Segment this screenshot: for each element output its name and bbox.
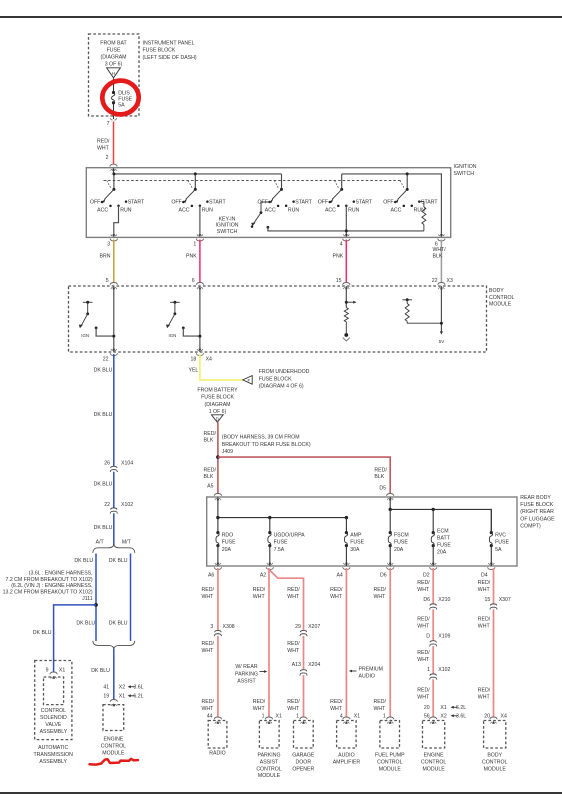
svg-text:H: H xyxy=(112,71,115,76)
svg-text:PREMIUM: PREMIUM xyxy=(359,666,384,672)
svg-text:4: 4 xyxy=(340,241,343,247)
svg-text:WHT: WHT xyxy=(478,587,491,593)
svg-text:W/ REAR: W/ REAR xyxy=(235,664,257,670)
connector fuel pump control module top pin xyxy=(387,717,394,719)
svg-text:SOLENOID: SOLENOID xyxy=(40,715,67,721)
svg-text:FUSE: FUSE xyxy=(222,540,236,546)
svg-text:3: 3 xyxy=(107,241,110,247)
svg-text:RED/: RED/ xyxy=(417,688,430,694)
svg-text:D6: D6 xyxy=(423,597,430,603)
svg-text:START: START xyxy=(209,199,226,205)
fuel pump control module box (dashed) xyxy=(380,721,400,749)
svg-text:3 OF 6): 3 OF 6) xyxy=(105,62,123,68)
svg-text:WHT: WHT xyxy=(97,146,110,152)
svg-text:X102: X102 xyxy=(121,502,133,508)
svg-text:ASSEMBLY: ASSEMBLY xyxy=(40,729,68,735)
svg-text:5: 5 xyxy=(106,278,109,284)
svg-text:D2: D2 xyxy=(423,572,430,578)
connector pin A2 xyxy=(266,567,273,569)
ignition switch section 5 xyxy=(406,174,408,190)
svg-text:IGNITION: IGNITION xyxy=(215,223,238,229)
svg-text:MODULE: MODULE xyxy=(489,301,512,307)
junction J111 xyxy=(94,603,98,607)
ignition switch section 3 key-in xyxy=(281,174,283,190)
svg-text:44: 44 xyxy=(207,713,213,719)
svg-text:X1: X1 xyxy=(59,668,65,674)
svg-text:RED/: RED/ xyxy=(374,587,387,593)
svg-text:FUSE: FUSE xyxy=(107,48,121,54)
svg-text:(LEFT SIDE OF DASH): (LEFT SIDE OF DASH) xyxy=(143,55,197,61)
svg-text:2: 2 xyxy=(106,155,109,161)
svg-text:OFF: OFF xyxy=(383,199,393,205)
connector pin A4 xyxy=(343,567,350,569)
svg-text:X1: X1 xyxy=(354,713,360,719)
connector pin 6 xyxy=(438,239,445,241)
svg-text:DK BLU: DK BLU xyxy=(76,620,95,626)
svg-text:RED/: RED/ xyxy=(374,467,387,473)
wire RED/WHT fuse block to ignition switch xyxy=(113,122,115,167)
svg-text:OPENER: OPENER xyxy=(292,766,314,772)
connector pin A5 xyxy=(214,494,221,496)
ignition switch section 1 (pivot, OFF/ACC/RUN/START) xyxy=(113,174,115,190)
svg-text:WHT: WHT xyxy=(374,706,387,712)
svg-text:X109: X109 xyxy=(438,634,450,640)
connector pin 2 ignition switch xyxy=(110,164,117,166)
switch 1 output wire RUN to pin 3 xyxy=(114,206,119,237)
svg-text:WHT: WHT xyxy=(478,695,491,701)
svg-text:WHT: WHT xyxy=(417,587,430,593)
wire RED/BLK from triangle D xyxy=(217,422,219,495)
svg-text:BLK: BLK xyxy=(374,474,384,480)
ignition internal bus segment B xyxy=(342,174,442,237)
arrow to parking assist wire xyxy=(264,670,267,673)
svg-text:DK BLU: DK BLU xyxy=(94,525,113,531)
svg-text:1: 1 xyxy=(193,241,196,247)
connector pin D5 xyxy=(387,494,394,496)
svg-text:RED/: RED/ xyxy=(202,641,215,647)
svg-text:AMP: AMP xyxy=(350,532,362,538)
svg-text:IGN: IGN xyxy=(168,333,176,338)
connector parking assist control module top pin xyxy=(265,717,272,719)
svg-text:7: 7 xyxy=(107,121,110,127)
svg-text:DOOR: DOOR xyxy=(296,759,312,765)
svg-text:START: START xyxy=(356,199,373,205)
control solenoid valve assembly box (dashed) xyxy=(44,677,64,705)
svg-text:X104: X104 xyxy=(121,460,133,466)
svg-text:CONTROL: CONTROL xyxy=(377,759,402,765)
wire DK BLU BCM to split xyxy=(113,354,115,546)
svg-text:20: 20 xyxy=(424,705,430,711)
svg-text:BODY: BODY xyxy=(489,288,504,294)
svg-text:(BODY HARNESS, 39 CM FROM: (BODY HARNESS, 39 CM FROM xyxy=(222,435,300,441)
connector engine control module U1 top pin xyxy=(430,717,437,719)
ignition internal bus segment A xyxy=(114,173,282,175)
svg-text:RED/: RED/ xyxy=(330,587,343,593)
svg-text:BLK: BLK xyxy=(204,437,214,443)
connector BCM pin 5 xyxy=(110,283,117,285)
svg-text:D5: D5 xyxy=(379,485,386,491)
wire PNK pin1 to BCM xyxy=(199,240,201,286)
wire RED/BLK branch to D5 xyxy=(218,457,390,495)
connector BCM bottom pin 18 X4 xyxy=(196,353,203,355)
svg-text:5V: 5V xyxy=(439,339,446,344)
svg-text:WHT: WHT xyxy=(478,624,491,630)
svg-text:PARKING: PARKING xyxy=(258,753,281,759)
wire RED/WHT parking assist xyxy=(268,568,270,719)
svg-text:X102: X102 xyxy=(438,667,450,673)
svg-text:RED/: RED/ xyxy=(253,699,266,705)
connector pin D6 xyxy=(387,567,394,569)
svg-text:ACC: ACC xyxy=(265,207,276,213)
svg-text:RED/: RED/ xyxy=(374,699,387,705)
svg-text:RED/: RED/ xyxy=(417,580,430,586)
svg-text:ECM: ECM xyxy=(437,528,449,534)
connector ECM pin xyxy=(110,700,117,702)
BCM pin15 junction + arrow xyxy=(345,301,348,304)
svg-text:DK BLU: DK BLU xyxy=(94,368,113,374)
svg-text:18: 18 xyxy=(191,357,197,363)
wire RED/WHT body control xyxy=(493,568,495,719)
svg-text:WHT: WHT xyxy=(202,594,215,600)
svg-text:(RIGHT REAR: (RIGHT REAR xyxy=(520,509,554,515)
fuse block left bus xyxy=(217,497,219,518)
svg-text:F: F xyxy=(248,378,251,383)
fuse ECM BATT xyxy=(432,531,435,534)
svg-text:4: 4 xyxy=(340,713,343,719)
key-in output wire xyxy=(268,227,424,231)
key-in switch branch from OFF xyxy=(261,202,270,213)
svg-text:DK BLU: DK BLU xyxy=(94,412,113,418)
connector garage door opener top pin xyxy=(300,717,307,719)
svg-text:ASSIST: ASSIST xyxy=(260,759,279,765)
svg-text:UGDO/URPA: UGDO/URPA xyxy=(274,532,306,538)
inline connector X102 xyxy=(431,674,436,680)
svg-text:29: 29 xyxy=(295,624,301,630)
svg-text:DK BLU: DK BLU xyxy=(94,482,113,488)
svg-text:X210: X210 xyxy=(438,597,450,603)
svg-text:CONTROL: CONTROL xyxy=(482,759,507,765)
wire pin 2 to internal bus xyxy=(113,168,115,174)
svg-text:22: 22 xyxy=(104,502,110,508)
svg-text:TRANSMISSION: TRANSMISSION xyxy=(33,752,73,758)
svg-text:FUSE BLOCK: FUSE BLOCK xyxy=(201,395,234,401)
svg-text:(DIAGRAM: (DIAGRAM xyxy=(205,402,231,408)
svg-text:15: 15 xyxy=(485,597,491,603)
svg-text:X307: X307 xyxy=(499,597,511,603)
inline connector X210 xyxy=(431,604,436,610)
connector pin D4 xyxy=(488,567,495,569)
svg-text:FSCM: FSCM xyxy=(394,532,409,538)
inline connector X308 xyxy=(215,630,220,636)
BCM 5V resistor branch wire xyxy=(407,321,441,323)
svg-text:DK BLU: DK BLU xyxy=(91,668,110,674)
svg-text:RVC: RVC xyxy=(495,532,506,538)
connector BCM bottom pin 22 xyxy=(110,353,117,355)
page top border xyxy=(0,16,562,18)
svg-text:OF LUGGAGE: OF LUGGAGE xyxy=(520,516,555,522)
svg-text:DK BLU: DK BLU xyxy=(109,558,128,564)
svg-text:FROM BATTERY: FROM BATTERY xyxy=(197,388,238,394)
svg-text:WHT: WHT xyxy=(417,657,430,663)
audio amplifier box (dashed) xyxy=(337,721,357,749)
svg-text:J111: J111 xyxy=(82,596,93,602)
BCM IGN switch 2 xyxy=(170,301,180,303)
svg-text:CONTROL: CONTROL xyxy=(489,295,514,301)
svg-text:X1: X1 xyxy=(440,705,446,711)
svg-text:M/T: M/T xyxy=(122,540,132,546)
svg-text:1: 1 xyxy=(262,713,265,719)
wire RED/WHT engine control xyxy=(432,568,434,719)
svg-text:REAR BODY: REAR BODY xyxy=(520,495,551,501)
switch 4 output wire RUN to pin 4 xyxy=(345,206,347,237)
svg-text:(DIAGRAM: (DIAGRAM xyxy=(101,55,127,61)
svg-text:5A: 5A xyxy=(118,102,125,108)
body control module U2 box (dashed) xyxy=(484,721,506,749)
svg-text:RUN: RUN xyxy=(288,207,299,213)
svg-text:CONTROL: CONTROL xyxy=(421,759,446,765)
svg-text:X308: X308 xyxy=(223,624,235,630)
svg-text:CONTROL: CONTROL xyxy=(256,766,281,772)
svg-text:CONTROL: CONTROL xyxy=(41,708,66,714)
svg-text:FROM UNDERHOOD: FROM UNDERHOOD xyxy=(259,369,310,375)
svg-text:WHT: WHT xyxy=(330,706,343,712)
svg-text:BREAKOUT TO REAR FUSE BLOCK): BREAKOUT TO REAR FUSE BLOCK) xyxy=(222,442,311,448)
inline connector X207 xyxy=(301,630,306,636)
automatic transmission assembly box (dashed) xyxy=(35,661,72,740)
triangle symbol H xyxy=(107,68,121,78)
wire bus to fuse ECM BATT xyxy=(432,509,434,532)
svg-text:RED/: RED/ xyxy=(202,587,215,593)
svg-text:1 OF 6): 1 OF 6) xyxy=(209,409,227,415)
ignition switch section 2 xyxy=(194,174,196,190)
svg-text:WHT: WHT xyxy=(202,648,215,654)
wire resistor to ground xyxy=(345,322,347,335)
fuse UGDO/URPA xyxy=(268,531,271,534)
svg-text:X204: X204 xyxy=(308,662,320,668)
resistor ignition start xyxy=(422,207,426,225)
wire bus to fuse RVC xyxy=(490,509,492,532)
wire RED/WHT garage door diagonal xyxy=(269,570,304,719)
svg-text:A6: A6 xyxy=(208,572,214,578)
connector radio top pin xyxy=(214,717,221,719)
svg-text:AUDIO: AUDIO xyxy=(338,753,354,759)
svg-text:CONTROL: CONTROL xyxy=(101,744,126,750)
fuse RDO xyxy=(216,531,219,534)
svg-text:RUN: RUN xyxy=(202,207,213,213)
svg-text:PNK: PNK xyxy=(333,253,344,259)
fuse block right bus xyxy=(389,497,391,509)
svg-text:3: 3 xyxy=(210,624,213,630)
connector BCM pin 15 xyxy=(343,283,350,285)
engine control module box (dashed) xyxy=(103,705,124,731)
key-in switch arm xyxy=(254,213,261,224)
svg-text:MODULE: MODULE xyxy=(102,750,125,756)
svg-text:41: 41 xyxy=(103,684,109,690)
svg-text:DK BLU: DK BLU xyxy=(74,558,93,564)
svg-text:X3: X3 xyxy=(447,278,453,284)
svg-text:FUSE: FUSE xyxy=(394,540,408,546)
svg-text:RED/: RED/ xyxy=(330,699,343,705)
svg-text:GARAGE: GARAGE xyxy=(292,753,315,759)
wire DK BLU to solenoid xyxy=(54,605,96,673)
ground symbol xyxy=(344,333,348,337)
svg-text:YEL: YEL xyxy=(189,367,199,373)
ignition switch box xyxy=(86,168,450,238)
svg-text:PNK: PNK xyxy=(186,253,197,259)
svg-text:RED/: RED/ xyxy=(287,699,300,705)
wire fuse UGDO/URPA to bottom xyxy=(269,546,271,566)
svg-text:WHT: WHT xyxy=(417,624,430,630)
svg-text:1: 1 xyxy=(296,713,299,719)
fuse FSCM xyxy=(389,531,392,534)
ignition switch section 4 xyxy=(341,174,343,190)
svg-text:WHT/: WHT/ xyxy=(433,247,447,253)
svg-text:7.2 CM FROM BREAKOUT TO X102): 7.2 CM FROM BREAKOUT TO X102) xyxy=(6,577,93,583)
inline connector X307 xyxy=(491,604,496,610)
svg-text:1: 1 xyxy=(427,667,430,673)
svg-text:AUTOMATIC: AUTOMATIC xyxy=(38,745,68,751)
wire triangle H to fuse xyxy=(113,79,115,93)
svg-text:X1: X1 xyxy=(276,713,282,719)
svg-text:WHT: WHT xyxy=(287,706,300,712)
svg-text:6: 6 xyxy=(192,278,195,284)
svg-text:RED/: RED/ xyxy=(202,699,215,705)
connector pin 4 xyxy=(343,239,350,241)
svg-text:A4: A4 xyxy=(336,572,342,578)
svg-text:RED/: RED/ xyxy=(204,467,217,473)
svg-text:A/T: A/T xyxy=(96,540,105,546)
svg-text:MODULE: MODULE xyxy=(379,766,402,772)
svg-text:X2: X2 xyxy=(440,714,446,720)
key-in switch pivot dot xyxy=(260,211,263,214)
merge brace xyxy=(93,641,135,649)
right bus junctions xyxy=(389,508,392,511)
svg-text:22: 22 xyxy=(432,278,438,284)
wire fuse to pin 7 xyxy=(113,103,115,119)
svg-text:SWITCH: SWITCH xyxy=(217,229,238,235)
svg-text:D: D xyxy=(426,634,430,640)
svg-text:ASSEMBLY: ASSEMBLY xyxy=(39,759,67,765)
svg-text:RUN: RUN xyxy=(348,207,359,213)
svg-text:A2: A2 xyxy=(260,572,266,578)
svg-text:RED/: RED/ xyxy=(97,139,110,145)
junction 5V branch xyxy=(440,322,443,325)
resistor BCM 5V xyxy=(405,304,409,322)
svg-text:FUSE: FUSE xyxy=(274,540,288,546)
switch 2 output wire RUN to pin 1 xyxy=(199,206,201,237)
svg-text:20A: 20A xyxy=(437,550,447,556)
svg-text:FUSE: FUSE xyxy=(350,540,364,546)
svg-text:15: 15 xyxy=(336,278,342,284)
fuse AMP xyxy=(345,531,348,534)
svg-text:KEY-IN: KEY-IN xyxy=(219,216,236,222)
connector pin 1 xyxy=(196,239,203,241)
page bottom border xyxy=(0,792,562,794)
wire RED/WHT audio amplifier xyxy=(345,568,347,719)
svg-text:WHT: WHT xyxy=(287,648,300,654)
parking assist control module box (dashed) xyxy=(259,721,279,749)
svg-text:BATT: BATT xyxy=(437,535,451,541)
svg-text:6.2L: 6.2L xyxy=(456,705,466,711)
BCM internal wire 1 xyxy=(113,286,115,352)
mechanical linkage dashed line xyxy=(104,180,402,182)
svg-text:(3.6L : ENGINE HARNESS,: (3.6L : ENGINE HARNESS, xyxy=(29,571,93,577)
red annotation squiggle xyxy=(90,759,139,765)
svg-text:ACC: ACC xyxy=(179,207,190,213)
svg-text:3.6L: 3.6L xyxy=(456,714,466,720)
svg-text:ACC: ACC xyxy=(390,207,401,213)
connector solenoid pin xyxy=(50,672,57,674)
svg-text:WHT: WHT xyxy=(202,706,215,712)
red annotation circle around DLIS fuse xyxy=(101,79,140,115)
svg-text:WHT: WHT xyxy=(253,706,266,712)
svg-text:DK BLU: DK BLU xyxy=(109,620,128,626)
svg-text:ACC: ACC xyxy=(325,207,336,213)
svg-text:RED/: RED/ xyxy=(287,641,300,647)
svg-text:FROM BAT: FROM BAT xyxy=(100,41,127,47)
svg-text:AUDIO: AUDIO xyxy=(359,674,375,680)
svg-text:PARKING: PARKING xyxy=(235,671,258,677)
svg-text:BLK: BLK xyxy=(433,254,443,260)
garage door opener box (dashed) xyxy=(294,721,314,749)
triangle symbol F xyxy=(243,376,253,385)
wire RED/WHT fuel pump xyxy=(389,568,391,719)
radio box (dashed) xyxy=(208,721,227,749)
svg-text:WHT: WHT xyxy=(374,594,387,600)
svg-text:X2: X2 xyxy=(119,684,125,690)
svg-text:ASSIST: ASSIST xyxy=(237,679,256,685)
wire fuse ECM BATT to bottom xyxy=(432,546,434,566)
engine control module U1 box (dashed) xyxy=(423,721,445,749)
svg-text:RED/: RED/ xyxy=(287,587,300,593)
svg-text:BLK: BLK xyxy=(204,474,214,480)
svg-text:RED/: RED/ xyxy=(478,580,491,586)
svg-text:5A: 5A xyxy=(495,547,502,553)
svg-text:BODY: BODY xyxy=(487,753,502,759)
wire WHT/BLK pin6 to BCM xyxy=(440,240,442,286)
svg-text:COMPT): COMPT) xyxy=(520,524,541,530)
svg-text:FUSE: FUSE xyxy=(495,540,509,546)
svg-text:X4: X4 xyxy=(206,357,212,363)
svg-text:VALVE: VALVE xyxy=(45,722,61,728)
svg-text:MODULE: MODULE xyxy=(258,773,281,779)
svg-text:D4: D4 xyxy=(481,572,488,578)
svg-text:X1: X1 xyxy=(119,694,125,700)
svg-text:A5: A5 xyxy=(207,483,213,489)
svg-text:FUSE BLOCK: FUSE BLOCK xyxy=(520,502,553,508)
arrow premium audio xyxy=(349,670,352,673)
inline connector X104 xyxy=(111,466,116,472)
svg-text:AMPLIFIER: AMPLIFIER xyxy=(333,759,361,765)
svg-text:WHT: WHT xyxy=(253,594,266,600)
wire DK BLU M/T branch xyxy=(130,554,132,642)
svg-text:FUEL PUMP: FUEL PUMP xyxy=(375,753,405,759)
split brace A/T M/T xyxy=(93,545,135,553)
wire bus to fuse UGDO/URPA xyxy=(269,518,271,533)
wire YEL xyxy=(200,354,243,380)
svg-text:START: START xyxy=(128,199,145,205)
svg-text:WHT: WHT xyxy=(287,594,300,600)
svg-text:BRN: BRN xyxy=(100,253,111,259)
connector pin A6 xyxy=(214,567,221,569)
connector BCM pin 22 X3 xyxy=(438,283,445,285)
body control module box (dashed) xyxy=(69,286,487,352)
svg-text:RED/: RED/ xyxy=(417,617,430,623)
BCM pin15 wire xyxy=(345,286,347,308)
svg-text:19: 19 xyxy=(103,694,109,700)
wire bus to fuse RDO xyxy=(217,518,219,533)
wire bus to fuse AMP xyxy=(345,518,347,533)
